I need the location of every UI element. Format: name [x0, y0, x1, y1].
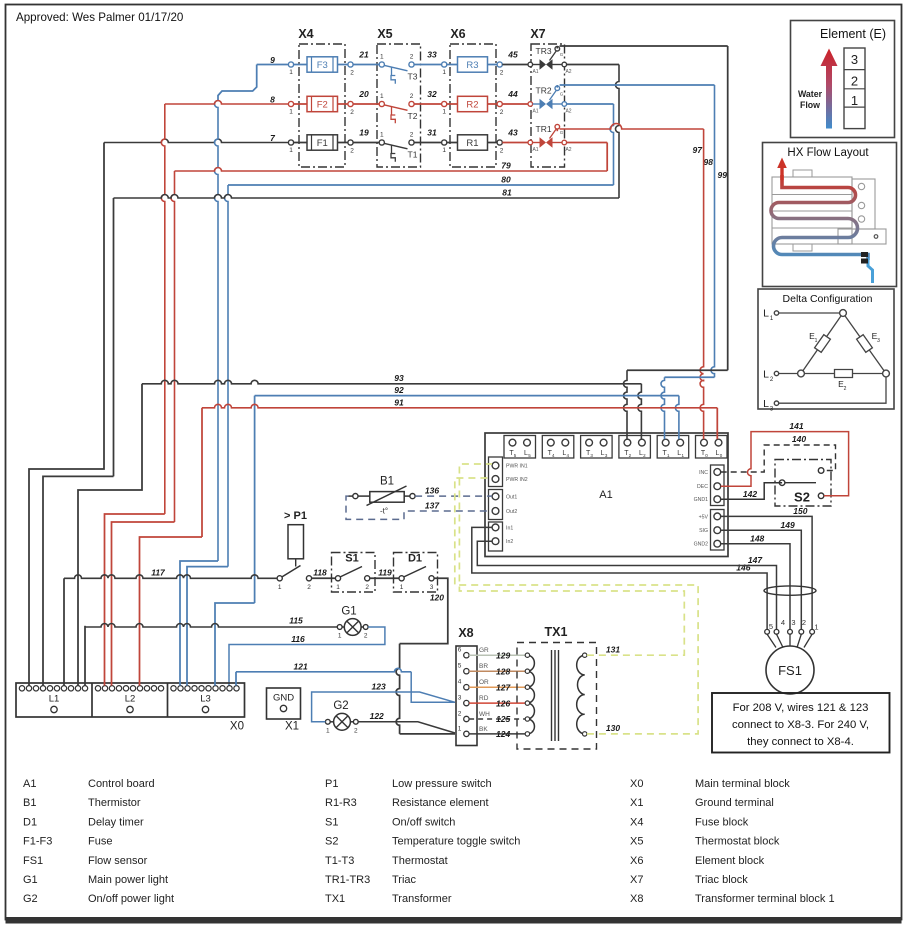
svg-text:L: L — [763, 398, 769, 410]
svg-text:116: 116 — [291, 634, 305, 644]
svg-text:Element (E): Element (E) — [820, 27, 886, 41]
svg-text:1: 1 — [400, 584, 404, 591]
svg-text:GR: GR — [479, 647, 489, 654]
svg-text:INC: INC — [699, 470, 708, 476]
svg-text:117: 117 — [151, 568, 166, 578]
svg-text:T3: T3 — [408, 72, 418, 82]
svg-text:HX Flow Layout: HX Flow Layout — [787, 147, 869, 159]
svg-text:R1-R3: R1-R3 — [325, 797, 357, 809]
svg-text:19: 19 — [359, 128, 369, 138]
svg-text:2: 2 — [354, 727, 358, 734]
svg-text:X0: X0 — [230, 721, 244, 733]
svg-text:147: 147 — [748, 555, 763, 565]
svg-text:115: 115 — [289, 616, 303, 626]
svg-text:91: 91 — [394, 397, 404, 407]
svg-text:F3: F3 — [317, 60, 328, 71]
svg-text:In1: In1 — [506, 525, 513, 531]
svg-text:S2: S2 — [325, 836, 338, 848]
svg-text:2: 2 — [350, 109, 354, 116]
svg-text:148: 148 — [750, 533, 764, 543]
svg-text:3: 3 — [877, 338, 880, 344]
svg-text:-t°: -t° — [380, 507, 388, 516]
svg-text:98: 98 — [704, 157, 714, 167]
svg-text:2: 2 — [851, 74, 858, 89]
svg-text:R2: R2 — [466, 99, 478, 110]
svg-text:L: L — [763, 369, 769, 381]
svg-text:Main terminal block: Main terminal block — [695, 778, 790, 790]
svg-text:connect to X8-3. For 240 V,: connect to X8-3. For 240 V, — [732, 719, 869, 731]
svg-text:Fuse: Fuse — [88, 836, 112, 848]
svg-text:PWR IN1: PWR IN1 — [506, 464, 528, 470]
svg-text:X8: X8 — [630, 893, 643, 905]
svg-text:OR: OR — [479, 679, 489, 686]
svg-text:For 208 V, wires 121 & 123: For 208 V, wires 121 & 123 — [733, 702, 869, 714]
svg-text:R1: R1 — [466, 138, 478, 149]
svg-text:137: 137 — [425, 501, 440, 511]
svg-text:G2: G2 — [333, 700, 348, 712]
svg-text:Main power light: Main power light — [88, 874, 168, 886]
svg-text:1: 1 — [289, 147, 293, 154]
svg-text:X4: X4 — [630, 816, 643, 828]
svg-text:1: 1 — [278, 584, 282, 591]
svg-text:128: 128 — [496, 666, 510, 676]
svg-text:79: 79 — [501, 161, 511, 171]
svg-text:F2: F2 — [317, 99, 328, 110]
svg-text:X1: X1 — [630, 797, 643, 809]
svg-text:2: 2 — [350, 148, 354, 155]
svg-text:1: 1 — [851, 93, 858, 108]
svg-text:Ground terminal: Ground terminal — [695, 797, 774, 809]
svg-text:2: 2 — [500, 148, 504, 155]
svg-text:F1: F1 — [317, 138, 328, 149]
svg-text:GND2: GND2 — [694, 542, 709, 548]
svg-text:1: 1 — [338, 633, 342, 640]
svg-text:Low pressure switch: Low pressure switch — [392, 778, 492, 790]
svg-text:136: 136 — [425, 486, 439, 496]
svg-text:Triac: Triac — [392, 874, 417, 886]
svg-text:X5: X5 — [377, 27, 392, 41]
svg-text:X6: X6 — [450, 27, 465, 41]
svg-text:X5: X5 — [630, 836, 643, 848]
svg-text:A1: A1 — [532, 147, 538, 153]
svg-text:T1-T3: T1-T3 — [325, 855, 354, 867]
svg-text:1: 1 — [380, 132, 384, 139]
svg-text:Transformer terminal block 1: Transformer terminal block 1 — [695, 893, 835, 905]
svg-text:X1: X1 — [285, 721, 299, 733]
svg-text:S1: S1 — [345, 553, 358, 565]
svg-text:1: 1 — [336, 584, 340, 591]
svg-text:130: 130 — [606, 723, 620, 733]
svg-text:2: 2 — [410, 132, 414, 139]
svg-text:118: 118 — [313, 567, 327, 577]
svg-text:P1: P1 — [325, 778, 338, 790]
svg-text:G2: G2 — [23, 893, 38, 905]
svg-text:FS1: FS1 — [23, 855, 43, 867]
svg-text:PWR IN2: PWR IN2 — [506, 477, 528, 483]
svg-text:124: 124 — [496, 729, 510, 739]
svg-text:Triac block: Triac block — [695, 874, 748, 886]
svg-text:G1: G1 — [23, 874, 38, 886]
svg-text:TR3: TR3 — [536, 46, 552, 56]
svg-text:A2: A2 — [565, 69, 571, 75]
svg-text:A1: A1 — [599, 489, 612, 501]
svg-text:131: 131 — [606, 645, 620, 655]
svg-text:In2: In2 — [506, 539, 513, 545]
svg-text:+5V: +5V — [699, 514, 709, 520]
svg-text:X6: X6 — [630, 855, 643, 867]
svg-text:D1: D1 — [23, 816, 37, 828]
svg-text:Element block: Element block — [695, 855, 765, 867]
svg-text:> P1: > P1 — [284, 510, 307, 522]
svg-text:Out2: Out2 — [506, 509, 517, 515]
svg-text:A1: A1 — [23, 778, 36, 790]
svg-text:2: 2 — [350, 70, 354, 77]
svg-text:SIG: SIG — [699, 528, 708, 534]
svg-text:2: 2 — [500, 70, 504, 77]
svg-text:2: 2 — [802, 618, 806, 627]
svg-text:Temperature toggle switch: Temperature toggle switch — [392, 836, 520, 848]
svg-text:Flow sensor: Flow sensor — [88, 855, 148, 867]
svg-text:DEC: DEC — [697, 484, 708, 490]
svg-text:A1: A1 — [532, 109, 538, 115]
svg-text:5: 5 — [458, 663, 462, 670]
svg-text:they connect to X8-4.: they connect to X8-4. — [747, 736, 854, 748]
svg-text:1: 1 — [289, 69, 293, 76]
svg-text:X7: X7 — [530, 27, 545, 41]
svg-text:4: 4 — [458, 679, 462, 686]
svg-text:D1: D1 — [408, 553, 422, 565]
svg-text:A2: A2 — [565, 147, 571, 153]
svg-text:33: 33 — [427, 50, 437, 60]
svg-text:6: 6 — [458, 647, 462, 654]
svg-text:93: 93 — [394, 373, 404, 383]
svg-text:99: 99 — [718, 170, 728, 180]
svg-text:TR2: TR2 — [536, 86, 552, 96]
svg-text:Out1: Out1 — [506, 494, 517, 500]
svg-text:21: 21 — [358, 50, 369, 60]
svg-text:20: 20 — [358, 89, 369, 99]
svg-text:X4: X4 — [298, 27, 313, 41]
svg-text:BR: BR — [479, 663, 488, 670]
svg-text:Thermostat block: Thermostat block — [695, 836, 780, 848]
svg-text:B1: B1 — [380, 476, 394, 488]
svg-text:32: 32 — [427, 89, 437, 99]
svg-text:Delta Configuration: Delta Configuration — [783, 293, 873, 305]
svg-text:TR1-TR3: TR1-TR3 — [325, 874, 370, 886]
svg-text:Transformer: Transformer — [392, 893, 452, 905]
svg-text:2: 2 — [844, 386, 847, 392]
svg-text:2: 2 — [410, 93, 414, 100]
svg-text:1: 1 — [442, 69, 446, 76]
svg-text:2: 2 — [500, 109, 504, 116]
svg-text:Control board: Control board — [88, 778, 155, 790]
svg-text:BK: BK — [479, 726, 488, 733]
svg-text:122: 122 — [370, 711, 384, 721]
svg-text:125: 125 — [496, 714, 510, 724]
svg-text:5: 5 — [769, 622, 773, 631]
svg-text:3: 3 — [851, 52, 858, 67]
svg-text:1: 1 — [289, 109, 293, 116]
svg-text:120: 120 — [430, 593, 444, 603]
svg-text:2: 2 — [364, 633, 368, 640]
svg-text:T1: T1 — [408, 150, 418, 160]
svg-text:97: 97 — [693, 145, 704, 155]
svg-text:G: G — [560, 92, 564, 97]
svg-text:1: 1 — [442, 147, 446, 154]
svg-text:TR1: TR1 — [536, 124, 552, 134]
svg-text:3: 3 — [791, 618, 795, 627]
svg-text:L3: L3 — [200, 694, 211, 705]
svg-text:149: 149 — [781, 520, 795, 530]
svg-text:WH: WH — [479, 711, 490, 718]
svg-text:2: 2 — [410, 54, 414, 61]
svg-text:L2: L2 — [125, 694, 136, 705]
svg-text:119: 119 — [378, 567, 392, 577]
svg-text:1: 1 — [815, 338, 818, 344]
svg-text:3: 3 — [430, 584, 434, 591]
svg-text:2: 2 — [458, 711, 462, 718]
svg-text:44: 44 — [507, 89, 518, 99]
svg-text:45: 45 — [507, 50, 518, 60]
svg-text:43: 43 — [507, 128, 518, 138]
svg-text:121: 121 — [294, 661, 308, 671]
svg-text:Resistance element: Resistance element — [392, 797, 489, 809]
svg-text:On/off switch: On/off switch — [392, 816, 455, 828]
svg-text:FS1: FS1 — [778, 663, 802, 678]
svg-text:150: 150 — [793, 506, 807, 516]
svg-text:9: 9 — [270, 55, 275, 65]
svg-text:1: 1 — [380, 54, 384, 61]
svg-text:B1: B1 — [23, 797, 36, 809]
svg-text:141: 141 — [789, 421, 803, 431]
svg-text:4: 4 — [781, 618, 785, 627]
svg-text:S1: S1 — [325, 816, 338, 828]
svg-text:1: 1 — [380, 93, 384, 100]
svg-text:RD: RD — [479, 695, 489, 702]
svg-text:92: 92 — [394, 385, 404, 395]
svg-text:X0: X0 — [630, 778, 643, 790]
svg-text:On/off power light: On/off power light — [88, 893, 174, 905]
svg-text:1: 1 — [458, 725, 462, 732]
svg-text:1: 1 — [442, 109, 446, 116]
svg-text:GND: GND — [273, 693, 294, 704]
svg-text:Fuse block: Fuse block — [695, 816, 749, 828]
svg-text:2: 2 — [307, 584, 311, 591]
svg-text:A2: A2 — [565, 109, 571, 115]
svg-text:Water: Water — [798, 89, 823, 99]
svg-text:R3: R3 — [466, 60, 478, 71]
svg-text:L: L — [763, 308, 769, 320]
svg-text:TX1: TX1 — [545, 625, 568, 639]
svg-text:1: 1 — [814, 623, 818, 632]
svg-text:X8: X8 — [458, 626, 473, 640]
svg-text:Thermostat: Thermostat — [392, 855, 448, 867]
svg-text:126: 126 — [496, 698, 510, 708]
svg-text:L1: L1 — [49, 694, 60, 705]
svg-text:3: 3 — [458, 695, 462, 702]
svg-text:Delay timer: Delay timer — [88, 816, 144, 828]
svg-text:80: 80 — [501, 175, 511, 185]
svg-text:X7: X7 — [630, 874, 643, 886]
svg-text:31: 31 — [427, 128, 437, 138]
svg-text:142: 142 — [743, 489, 757, 499]
svg-text:S2: S2 — [794, 490, 810, 505]
svg-text:Flow: Flow — [800, 100, 820, 110]
svg-text:8: 8 — [270, 95, 275, 105]
svg-text:G: G — [560, 130, 564, 135]
svg-text:T2: T2 — [408, 111, 418, 121]
svg-text:123: 123 — [372, 682, 386, 692]
svg-text:1: 1 — [326, 727, 330, 734]
svg-text:81: 81 — [502, 188, 512, 198]
svg-text:Thermistor: Thermistor — [88, 797, 141, 809]
svg-text:127: 127 — [496, 682, 511, 692]
svg-text:GND1: GND1 — [694, 497, 709, 503]
svg-text:A1: A1 — [532, 69, 538, 75]
svg-text:G: G — [560, 52, 564, 57]
svg-text:F1-F3: F1-F3 — [23, 836, 52, 848]
svg-text:2: 2 — [365, 584, 369, 591]
svg-text:140: 140 — [792, 434, 806, 444]
svg-text:TX1: TX1 — [325, 893, 345, 905]
svg-text:129: 129 — [496, 650, 510, 660]
svg-text:G1: G1 — [341, 606, 356, 618]
svg-text:Approved: Wes Palmer 01/17/20: Approved: Wes Palmer 01/17/20 — [16, 11, 183, 24]
